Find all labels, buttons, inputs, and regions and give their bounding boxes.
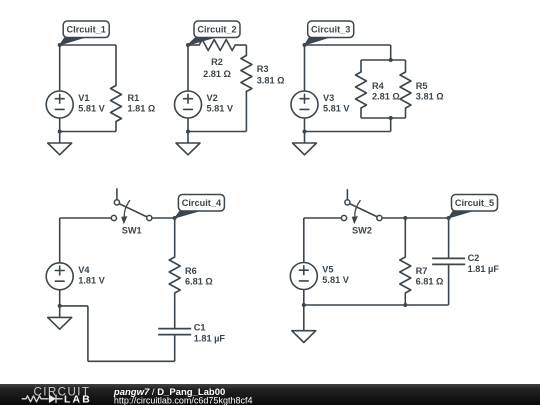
- logo zigzag and diode: [22, 395, 63, 403]
- wire node to R6: [174, 218, 176, 257]
- wire right branch lower C1: [115, 122, 117, 132]
- wire top split rail C3: [361, 59, 406, 61]
- svg-text:5.81 V: 5.81 V: [207, 104, 234, 114]
- svg-text:5.81 V: 5.81 V: [323, 104, 350, 114]
- capacitor C2: [432, 258, 465, 264]
- svg-text:1.81 V: 1.81 V: [78, 275, 105, 285]
- wire R5 branch upper: [405, 60, 407, 72]
- svg-text:SW1: SW1: [122, 225, 142, 235]
- svg-text:1.81 µF: 1.81 µF: [468, 264, 500, 274]
- wire right branch upper C1: [115, 45, 117, 86]
- node R7 branch top C5: [403, 216, 407, 220]
- wire R2 to corner: [235, 44, 246, 46]
- callout tail C2: [188, 38, 215, 46]
- wire top rail to switch C5: [304, 217, 342, 219]
- logo diode triangle: [49, 395, 56, 403]
- node top C4: [173, 216, 177, 220]
- callout tail C3: [305, 38, 329, 46]
- voltage source V2: [175, 91, 202, 118]
- wire R6 to C1: [174, 293, 176, 329]
- wire V1 bottom stub: [59, 118, 61, 132]
- ground C3: [293, 132, 317, 155]
- wire V3 bottom stub: [304, 118, 306, 132]
- wire up from bottom rail C4: [87, 306, 89, 361]
- svg-text:3.81 Ω: 3.81 Ω: [257, 75, 285, 85]
- svg-text:R3: R3: [257, 64, 269, 74]
- switch SW2 terminal circles: [341, 215, 346, 220]
- svg-text:R2: R2: [211, 57, 223, 67]
- svg-text:V5: V5: [322, 265, 333, 275]
- node bottom C1: [58, 130, 62, 134]
- callout label Circuit_4: [178, 195, 224, 212]
- node bottom C5: [302, 303, 306, 307]
- wire top rail C1: [60, 44, 116, 46]
- svg-text:LAB: LAB: [64, 394, 92, 405]
- wire split down to bottom rail C3: [390, 118, 392, 132]
- svg-text:Circuit_2: Circuit_2: [197, 25, 236, 35]
- node top-left C1: [58, 43, 62, 47]
- callout tail C5: [449, 211, 472, 218]
- wire bottom rail C5: [304, 304, 449, 306]
- node R7 branch bottom C5: [403, 303, 407, 307]
- voltage source V1: [46, 91, 73, 118]
- callout tail C4: [175, 211, 199, 218]
- svg-text:V2: V2: [207, 93, 218, 103]
- callout label Circuit_5: [452, 195, 498, 212]
- wire R5 branch lower: [405, 108, 407, 118]
- resistor R7: [400, 257, 411, 293]
- wire to V4 bottom node: [60, 305, 88, 307]
- node bottom C4: [58, 304, 62, 308]
- svg-text:R5: R5: [416, 81, 428, 91]
- svg-text:3.81 Ω: 3.81 Ω: [416, 92, 444, 102]
- svg-text:V1: V1: [78, 93, 89, 103]
- node bottom C2: [186, 130, 190, 134]
- node bottom C3: [303, 130, 307, 134]
- node bottom split C3: [389, 116, 393, 120]
- wire switch to node1 C5: [382, 217, 449, 219]
- svg-text:R1: R1: [128, 93, 140, 103]
- svg-text:V3: V3: [323, 93, 334, 103]
- switch SW1 terminal circles: [111, 215, 116, 220]
- svg-text:V4: V4: [78, 265, 90, 275]
- switch SW1 arrowhead: [121, 216, 127, 224]
- svg-text:R7: R7: [416, 266, 428, 276]
- ground C5 (long stub): [292, 305, 316, 343]
- wire V5 top stub: [303, 218, 305, 263]
- voltage source V3: [291, 91, 318, 118]
- wire V5 bottom stub: [303, 290, 305, 306]
- switch SW2 arrowhead: [352, 216, 358, 224]
- wire V2 bottom stub: [187, 118, 189, 132]
- wire V4 top stub: [59, 218, 61, 263]
- svg-text:1.81 Ω: 1.81 Ω: [128, 104, 156, 114]
- wire node to R7: [404, 218, 406, 257]
- svg-text:5.81 V: 5.81 V: [78, 104, 105, 114]
- wire R4 branch lower: [360, 108, 362, 118]
- svg-text:CIrcuit_1: CIrcuit_1: [67, 25, 106, 35]
- ground C4: [48, 306, 72, 329]
- wire top rail C3: [305, 44, 391, 46]
- wire V4 bottom stub: [59, 290, 61, 306]
- wire node to R2: [188, 44, 199, 46]
- wire node2 down to C2: [448, 218, 450, 258]
- node top split C3: [389, 58, 393, 62]
- switch SW2: [347, 190, 377, 217]
- wire bottom rail C4: [88, 360, 175, 362]
- svg-text:http://circuitlab.com/c6d75kgt: http://circuitlab.com/c6d75kgth8cf4: [114, 396, 253, 405]
- voltage source V5: [290, 263, 317, 290]
- switch SW1: [117, 189, 147, 217]
- svg-text:C1: C1: [194, 323, 206, 333]
- svg-text:R4: R4: [372, 81, 385, 91]
- node top-left C2: [186, 43, 190, 47]
- svg-text:6.81 Ω: 6.81 Ω: [185, 277, 213, 287]
- wire V2 top stub: [187, 45, 189, 91]
- resistor R5: [400, 72, 411, 108]
- wire V3 top stub: [304, 45, 306, 91]
- callout label CIrcuit_1: [63, 21, 109, 38]
- callout label Circuit_3: [308, 21, 354, 38]
- resistor R4: [356, 72, 367, 108]
- svg-text:Circuit_5: Circuit_5: [455, 198, 494, 208]
- svg-text:Circuit_3: Circuit_3: [311, 25, 350, 35]
- wire bottom rail C3: [305, 131, 391, 133]
- ground C1: [48, 132, 72, 155]
- resistor R2: [199, 40, 235, 51]
- svg-text:2.81 Ω: 2.81 Ω: [372, 92, 400, 102]
- wire bottom rail C2: [188, 131, 246, 133]
- footer background: [0, 0, 1, 1]
- wire bottom rail C1: [60, 131, 116, 133]
- callout label Circuit_2: [194, 21, 240, 38]
- svg-text:R6: R6: [185, 266, 197, 276]
- wire down to split C3: [390, 45, 392, 60]
- svg-text:Circuit_4: Circuit_4: [182, 198, 222, 208]
- resistor R3: [241, 56, 252, 92]
- voltage source V4: [46, 263, 73, 290]
- svg-text:6.81 Ω: 6.81 Ω: [416, 277, 444, 287]
- node top-left C3: [303, 43, 307, 47]
- wire right branch lower C2: [245, 92, 247, 132]
- capacitor C1: [158, 329, 191, 335]
- wire bottom split rail C3: [361, 117, 406, 119]
- wire switch to node C4: [152, 217, 175, 219]
- svg-text:SW2: SW2: [352, 225, 372, 235]
- wire C1 down to bottom rail: [174, 335, 176, 362]
- wire V1 top stub: [59, 45, 61, 91]
- svg-text:C2: C2: [468, 253, 480, 263]
- wire R4 branch upper: [360, 60, 362, 72]
- wire C2 down to bottom rail: [448, 264, 450, 305]
- wire top rail to switch C4: [60, 217, 112, 219]
- svg-text:2.81 Ω: 2.81 Ω: [203, 69, 231, 79]
- resistor R1: [111, 86, 122, 122]
- callout tail C1: [60, 38, 84, 46]
- ground C2: [176, 132, 200, 155]
- svg-text:5.81 V: 5.81 V: [322, 275, 349, 285]
- resistor R6: [169, 257, 180, 293]
- wire R7 to bottom rail: [404, 293, 406, 305]
- svg-text:1.81 µF: 1.81 µF: [194, 334, 226, 344]
- node C2 branch top C5: [447, 216, 451, 220]
- wire right branch upper C2: [245, 45, 247, 56]
